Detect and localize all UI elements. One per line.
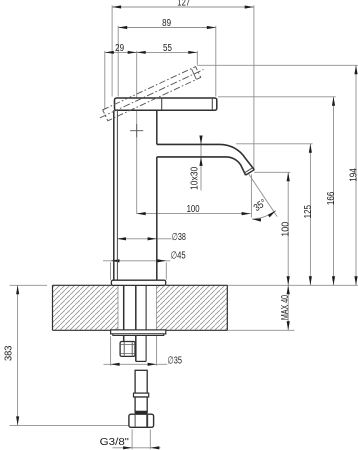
arrow 10x30 top (199, 136, 202, 145)
35 deg angle ray (249, 174, 277, 216)
arrow dim 125 top (309, 144, 312, 153)
compression nut G3/8 (129, 414, 154, 427)
dimension line 166 (333, 97, 335, 285)
arrow dim 100 left (137, 212, 146, 215)
mounting hole left edge (117, 286, 119, 330)
extension line spout outlet / dim 127 (253, 5, 255, 169)
counter right edge (226, 285, 228, 330)
dimension line 125 (309, 144, 311, 285)
arrow dim 89 left (118, 26, 127, 29)
counter slab hatched right part (156, 285, 227, 330)
extension line left end of dim 29 (104, 51, 106, 109)
arrow dim 127 left (112, 5, 121, 8)
svg-text:29: 29 (115, 43, 124, 54)
extension line spout top for dim 125 (236, 143, 313, 145)
stud right / supply pipe left edge (135, 285, 137, 361)
handle joint line (161, 99, 163, 110)
extension line counter top right (227, 284, 357, 286)
dimension line dia 45 (103, 260, 170, 262)
faucet centre axis extension line (136, 51, 138, 214)
svg-text:100: 100 (187, 204, 200, 215)
svg-text:G3/8": G3/8" (100, 437, 130, 448)
arrow dim 29 right (128, 51, 137, 54)
clamping washer bevel (113, 334, 164, 336)
arrow dia 35 right (148, 363, 157, 366)
body left inner edge (116, 110, 118, 280)
arrow G3/8 right (points left) (150, 446, 159, 449)
extension line left end of dim 127 (111, 5, 113, 96)
G3/8 thread band (135, 411, 147, 414)
extension line handle top for dim 166 (218, 96, 336, 98)
arrow dim 55 left (137, 51, 146, 54)
svg-text:∅38: ∅38 (172, 232, 187, 243)
dimension line G3/8 (113, 447, 161, 449)
mounting nut bottom chamfer (120, 352, 134, 354)
arrow dia 45 right (157, 259, 166, 262)
arrow dim 383 top (16, 285, 19, 294)
counter top left segment (53, 284, 112, 286)
extension line handle tip dim 89 (215, 26, 217, 97)
arrow MAX 40 bottom (287, 321, 290, 330)
arrow dim 100 top (287, 172, 290, 181)
extension line counter top left for dim 383 (10, 284, 48, 286)
body right edge above spout (156, 110, 158, 144)
counter top right segment (166, 284, 228, 286)
extension line washer left for dia 35 (110, 336, 112, 366)
dimension line dia 38 (117, 238, 172, 240)
extension line hose nut bottom for dim 383 (10, 424, 129, 426)
svg-text:127: 127 (177, 0, 190, 8)
svg-text:MAX 40: MAX 40 (280, 295, 291, 321)
svg-text:89: 89 (162, 18, 171, 29)
arrow dim 127 right (245, 6, 254, 9)
arrow G3/8 left (points right) (123, 446, 132, 449)
cartridge centre cross vertical (136, 124, 138, 137)
dimension line 194 (355, 65, 357, 285)
dimension line dia 35 (104, 363, 168, 365)
phantom handle end cap line (192, 69, 197, 79)
arrow dim 194 top (354, 65, 357, 74)
compression nut facet right (146, 415, 148, 427)
svg-text:125: 125 (303, 205, 314, 219)
svg-text:∅45: ∅45 (171, 251, 187, 262)
handle end cap line (211, 99, 213, 110)
arrow dia 35 left (111, 363, 120, 366)
arrow dim 125 bottom (309, 276, 312, 285)
phantom handle centreline (100, 70, 204, 118)
spout top edge (157, 144, 255, 169)
svg-text:166: 166 (326, 191, 337, 205)
handle lever horizontal (115, 98, 217, 110)
extension line outlet bottom for dim 100 (254, 171, 290, 173)
arrow dia 38 left (117, 237, 126, 240)
extension line raised handle tip for dim 194 (197, 64, 357, 66)
extension line washer right for dia 35 (156, 335, 158, 366)
svg-text:55: 55 (163, 43, 172, 54)
cartridge centre cross horizontal (130, 130, 143, 132)
arrow 35 deg arc bottom (252, 219, 261, 222)
vertical ray of 35 deg angle (250, 175, 252, 218)
extension line counter bottom for MAX 40 (227, 329, 294, 331)
base flange on counter (111, 280, 165, 285)
extension line flange right for dia 45 (165, 262, 167, 279)
extension line flange left for dia 45 (110, 262, 112, 279)
arrow dia 38 right (148, 237, 157, 240)
arrow 35 deg arc end (268, 211, 276, 218)
svg-text:194: 194 (348, 168, 358, 182)
spout outlet face (246, 170, 255, 175)
svg-text:100: 100 (281, 221, 292, 236)
extension line right for G3/8 (149, 429, 151, 449)
dimension line 100 height (287, 172, 289, 285)
mounting nut facet left (123, 342, 125, 356)
mounting nut top chamfer (120, 344, 134, 346)
mounting nut facet right (131, 342, 133, 356)
dimension line 100 spout reach (137, 213, 251, 215)
counter left edge (52, 285, 54, 330)
svg-text:10x30: 10x30 (190, 166, 201, 190)
extension line left end of dim 89 (117, 26, 119, 97)
35 deg angle arc (252, 211, 276, 220)
counter slab hatched left part (53, 285, 119, 330)
arrow dim 100 right (242, 212, 251, 215)
dimension line 29 and 55 (105, 51, 198, 53)
arrow 10x30 bottom (199, 157, 202, 166)
spout outlet rim (244, 168, 253, 173)
threaded stud left edge (123, 285, 125, 341)
arrow dim 166 bottom (332, 276, 335, 285)
arrow dim 166 top (332, 97, 335, 106)
arrow dia 45 left (111, 259, 120, 262)
counter bottom right segment (156, 329, 227, 331)
body right edge below spout (156, 157, 158, 280)
spout bottom edge (157, 157, 246, 175)
clamping washer under counter (111, 330, 166, 334)
hose connector upper pipe (135, 370, 147, 393)
arrow MAX 40 top (287, 285, 290, 294)
supply pipe bottom edge (136, 360, 146, 362)
compression nut facet left (134, 415, 136, 427)
dimension line 383 (17, 285, 19, 425)
body left outer edge (113, 110, 115, 280)
arrow dim 383 bottom (16, 416, 19, 425)
arrow dim 194 bottom (354, 276, 357, 285)
supply pipe right edge (145, 285, 147, 361)
dimension line 89 (118, 27, 216, 29)
hose connector lower pipe (135, 397, 147, 411)
arrow dim 29 left (105, 51, 114, 54)
dimension line MAX 40 (287, 285, 289, 330)
arrow dim 100 bottom (287, 276, 290, 285)
dimension line 10x30 spout section (200, 136, 202, 191)
phantom raised handle outline (103, 67, 201, 121)
extension line right end of dim 55 (196, 51, 198, 65)
svg-text:∅35: ∅35 (167, 356, 182, 367)
hose connector collar (134, 393, 149, 397)
extension line left for G3/8 (131, 429, 133, 449)
svg-text:383: 383 (4, 345, 15, 361)
mounting hole right edge (155, 286, 157, 330)
counter bottom left segment (53, 329, 119, 331)
arrow dim 89 right (207, 26, 216, 29)
dimension line 127 (112, 6, 254, 8)
arrow dim 55 right (188, 51, 197, 54)
mounting hex nut (120, 342, 135, 357)
